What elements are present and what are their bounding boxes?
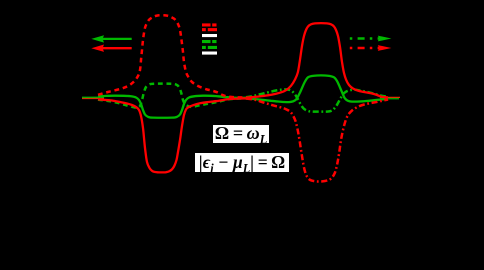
legend entry white solid — [202, 34, 217, 37]
right red dash-dot arrow — [350, 45, 392, 51]
right green dash-dot arrow — [350, 36, 392, 42]
baseline right green strand — [380, 98, 399, 100]
curve red dashed tall peak left — [98, 15, 254, 97]
curve red solid deep dip left — [98, 98, 254, 172]
curve green solid bump right — [246, 75, 388, 102]
legend entry green dashed — [202, 40, 217, 43]
text box |eps_i - mu_L| = Omega — [195, 153, 289, 172]
curve green solid dip left — [98, 96, 254, 118]
curve green dashed bump left — [98, 84, 254, 108]
legend entry green dash-dot — [202, 46, 217, 49]
legend entry red dash-dot — [202, 28, 217, 31]
left green arrow — [91, 35, 131, 42]
text box Omega = omega_L — [213, 125, 269, 143]
baseline left green strand — [82, 96, 104, 98]
baseline right red strand — [380, 96, 400, 98]
legend entry red dashed — [202, 23, 217, 26]
curve red solid tall peak right — [246, 23, 388, 97]
left red arrow — [91, 45, 131, 52]
curve red dash-dot deep dip right — [246, 99, 388, 182]
baseline left red strand — [82, 98, 104, 100]
legend entry white solid 2 — [202, 52, 217, 55]
curve green dash-dot dip right — [246, 89, 388, 111]
